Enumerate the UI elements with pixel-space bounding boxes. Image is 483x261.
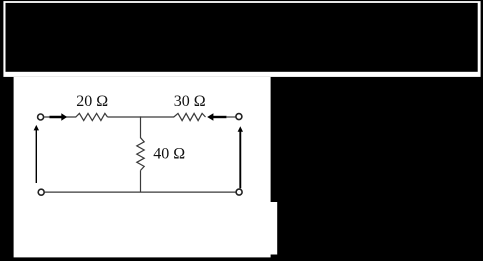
white circuit panel (14, 77, 271, 258)
current arrow into top-left terminal (50, 113, 68, 120)
current direction arrow left side (up) (34, 125, 39, 183)
white lower-right panel (200, 202, 277, 255)
bottom wire (45, 191, 236, 193)
wire: top-left terminal to 20 ohm resistor (44, 116, 76, 118)
white frame around top redaction box (3, 1, 480, 77)
svg-text:20 Ω: 20 Ω (76, 93, 108, 110)
resistor 20 ohm (76, 113, 108, 120)
wire: arrow to top-right terminal (226, 116, 235, 118)
terminal top-right (236, 114, 242, 120)
current direction arrow right side (up) (238, 126, 243, 188)
terminal bottom-right (236, 189, 242, 195)
current arrow into top-right terminal (207, 113, 226, 120)
wire: middle node vertical lower (140, 170, 142, 192)
resistor 30 ohm (174, 113, 206, 120)
resistor 40 ohm (137, 138, 144, 171)
terminal bottom-left (38, 189, 44, 195)
wire: 20 ohm to 30 ohm through middle node (108, 116, 175, 118)
wire: middle node vertical upper (140, 116, 142, 138)
svg-text:40 Ω: 40 Ω (153, 145, 185, 162)
svg-text:30 Ω: 30 Ω (174, 93, 206, 110)
terminal top-left (38, 114, 44, 120)
top redaction box (6, 3, 478, 72)
